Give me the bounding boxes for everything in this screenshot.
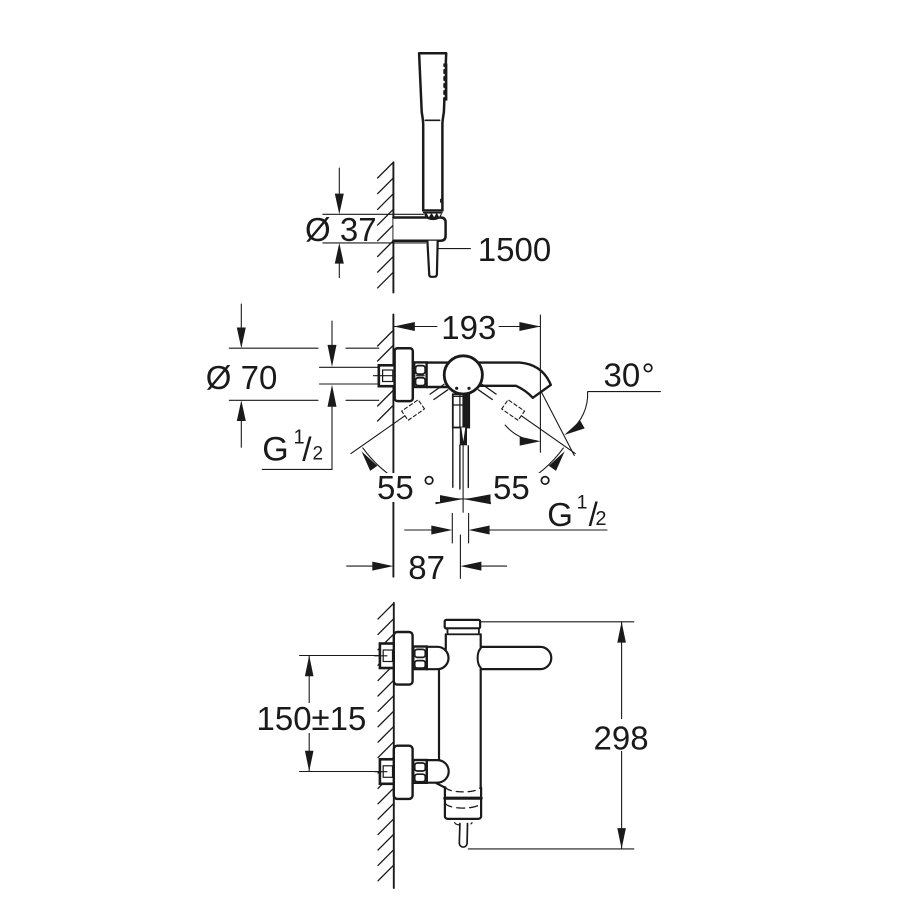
in-wall pipe bottom (side): [375, 759, 395, 784]
top cap: [445, 620, 480, 629]
svg-text:Ø 70: Ø 70: [206, 359, 278, 396]
outlet cup: [445, 787, 481, 819]
hose end: [459, 824, 467, 848]
in-wall pipe top (side): [375, 644, 395, 669]
svg-text:150±15: 150±15: [257, 700, 367, 737]
label 150±15 with halo: [255, 700, 366, 737]
G1/2 supply thread extension lines: [320, 366, 379, 368]
bottom union dome: [427, 760, 449, 783]
top hex nut (side): [413, 647, 426, 670]
lever neck (tapered, foreshortened): [460, 428, 467, 446]
body left edge upper: [445, 634, 447, 649]
svg-text:2: 2: [313, 444, 324, 465]
svg-text:2: 2: [595, 508, 606, 530]
label 298 with halo: [591, 719, 653, 757]
shower handle holder serration: [423, 211, 442, 213]
shower hose stub: [427, 241, 437, 277]
dimension Ø37: extension lines: [323, 213, 424, 215]
dimension Ø70: arrows: [237, 304, 246, 447]
dimension Ø70: extension lines: [229, 348, 378, 400]
wall hatching (bottom): [378, 603, 394, 881]
spray lever nub: [441, 199, 443, 203]
body left edge mid: [438, 671, 440, 761]
dimension 87: arrows and line: [347, 562, 507, 571]
30° dimension: label arc leader with arrow: [570, 392, 588, 432]
svg-text:Ø 37: Ø 37: [305, 211, 377, 248]
svg-text:G: G: [262, 431, 288, 469]
wall flange escutcheon (front): [395, 348, 413, 401]
spout: [478, 363, 551, 398]
in-wall supply pipe (front): [373, 365, 394, 386]
svg-text:30: 30: [604, 356, 641, 393]
svg-text:°: °: [423, 469, 436, 506]
left 55° arc: [363, 448, 463, 499]
svg-text:55: 55: [493, 469, 530, 506]
labels 55° with halo: [374, 469, 557, 506]
30° dimension: spout axis line: [541, 392, 574, 456]
dimension 87: right extension line: [459, 535, 461, 578]
top union dome: [427, 647, 449, 669]
top wall flange (side): [394, 632, 413, 685]
bottom hex nut (side): [413, 760, 426, 783]
left ghost handle (55° position, dash-dot): [351, 384, 448, 453]
30° dimension: opposite outside arc with arrow: [505, 425, 531, 440]
svg-text:1500: 1500: [478, 231, 551, 268]
handle ball base: [478, 649, 481, 668]
G1/2 right dimension: arrows and line: [405, 526, 607, 535]
cap lip: [448, 628, 479, 634]
dimension Ø37: arrows: [335, 168, 344, 278]
dimension 150±15: extension lines: [300, 656, 381, 772]
faucet body barrel (front): [427, 363, 448, 387]
30° dimension: underline: [588, 391, 660, 393]
right 55° arc arrowheads: [549, 451, 565, 471]
svg-text:193: 193: [441, 309, 496, 346]
hand shower grip joint line: [425, 119, 439, 121]
body right edge: [480, 634, 482, 647]
wall hatching (middle): [378, 330, 394, 421]
svg-text:1: 1: [577, 491, 588, 513]
wall hatching (top): [378, 162, 394, 288]
label G1/2 right: [547, 491, 606, 532]
svg-text:°: °: [642, 356, 655, 393]
bottom wall flange (side): [394, 746, 413, 799]
holder grip cup with serrated top: [424, 213, 442, 220]
svg-text:55: 55: [377, 469, 414, 506]
spray face strip on head right edge: [442, 64, 447, 101]
union hex nut (front): [414, 362, 426, 387]
wall line (middle) = left extension for 193 and 87: [392, 315, 394, 577]
dimension 193: dimension line and arrows: [394, 322, 541, 331]
handle (side view): [481, 647, 552, 669]
dimension 298: extension lines: [468, 622, 634, 849]
dimension 298: line and arrows: [617, 622, 626, 849]
leader 1500: [439, 248, 471, 250]
screw dots on circle: [455, 387, 458, 390]
wall bracket: [393, 218, 445, 241]
wall line (top): [392, 163, 394, 293]
G1/2 right dimension: extension lines: [452, 513, 468, 543]
svg-text:/: /: [302, 432, 312, 469]
label G1/2 left: [262, 426, 323, 468]
dimension 193: right extension line: [539, 315, 541, 452]
right ghost handle (55° position, dash-dot): [478, 384, 575, 453]
svg-text:298: 298: [594, 720, 649, 757]
hose nipple dashes: [455, 823, 472, 826]
body left edge to outlet: [437, 783, 445, 787]
lever handle (front, pointing down): [453, 394, 469, 427]
G1/2 left dimension arrows: [262, 321, 336, 469]
dimension 150±15: line and arrows: [305, 656, 314, 772]
wall line (bottom): [393, 603, 395, 888]
svg-text:87: 87: [408, 549, 445, 586]
lever tip lines: [453, 428, 469, 513]
left 55° arc arrowheads: [362, 451, 378, 471]
right 55° arc: [463, 448, 563, 499]
cartridge circle: [444, 356, 482, 394]
svg-text:°: °: [539, 469, 552, 506]
hand shower head: [419, 53, 446, 210]
